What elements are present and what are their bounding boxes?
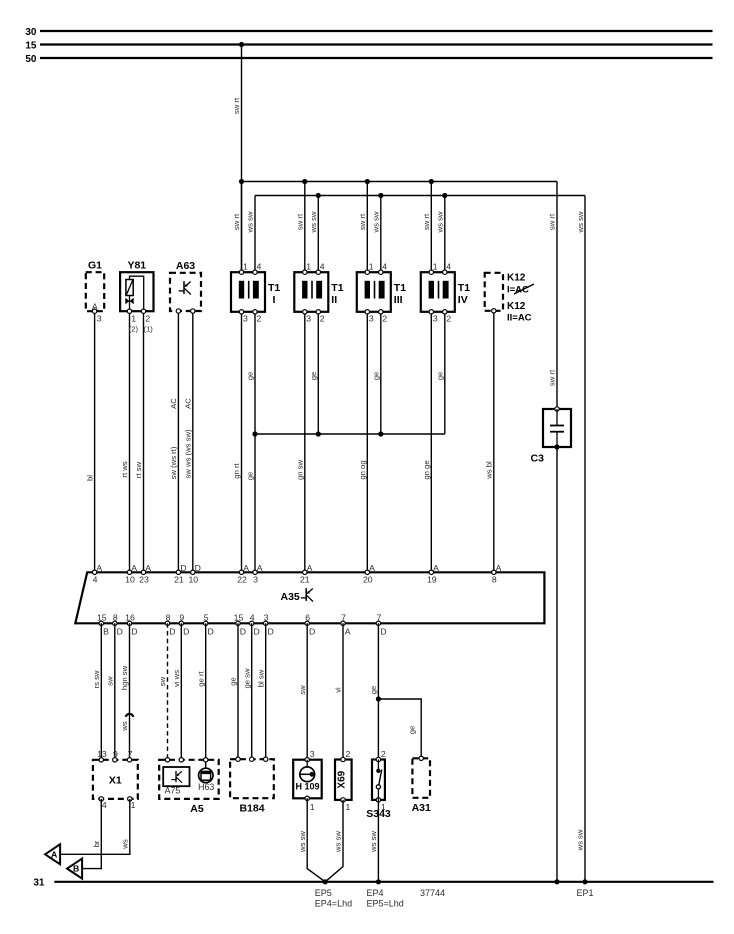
svg-text:15: 15 (97, 612, 107, 622)
svg-text:2: 2 (145, 314, 150, 324)
svg-text:21: 21 (300, 575, 310, 585)
svg-text:T1: T1 (394, 282, 406, 294)
svg-text:1: 1 (131, 314, 136, 324)
svg-text:ws: ws (120, 721, 129, 732)
svg-text:A35: A35 (281, 591, 300, 603)
svg-text:D: D (208, 627, 214, 637)
svg-text:2: 2 (257, 314, 262, 324)
svg-text:(1): (1) (144, 325, 154, 334)
svg-text:X1: X1 (109, 775, 122, 787)
svg-text:ge: ge (372, 372, 381, 381)
svg-text:A63: A63 (176, 260, 195, 272)
svg-text:I: I (273, 294, 276, 306)
svg-text:A: A (257, 563, 263, 573)
svg-text:9: 9 (179, 612, 184, 622)
svg-text:2: 2 (381, 749, 386, 759)
svg-text:D: D (183, 627, 189, 637)
svg-text:br: br (92, 840, 101, 847)
svg-text:ge: ge (229, 677, 238, 686)
svg-text:sw rt: sw rt (422, 213, 431, 230)
svg-text:A: A (131, 563, 137, 573)
svg-text:(2): (2) (129, 325, 139, 334)
svg-text:rs sw: rs sw (92, 670, 101, 688)
svg-text:EP5=Lhd: EP5=Lhd (367, 899, 404, 909)
svg-text:sw rt: sw rt (232, 97, 241, 114)
svg-text:ge: ge (246, 472, 255, 481)
svg-text:A: A (345, 627, 351, 637)
svg-text:vi: vi (334, 687, 343, 693)
svg-text:D: D (117, 627, 123, 637)
svg-text:1: 1 (131, 800, 136, 810)
svg-text:3: 3 (253, 575, 258, 585)
svg-text:IV: IV (458, 294, 468, 306)
svg-text:4: 4 (320, 262, 325, 272)
svg-text:K12: K12 (507, 273, 526, 284)
svg-text:D: D (180, 563, 186, 573)
svg-text:4: 4 (257, 262, 262, 272)
svg-text:sw (ws rt): sw (ws rt) (169, 446, 178, 479)
svg-text:ws sw: ws sw (298, 831, 307, 853)
svg-text:D: D (195, 563, 201, 573)
svg-text:EP4=Lhd: EP4=Lhd (315, 899, 352, 909)
svg-text:III: III (394, 294, 403, 306)
svg-text:8: 8 (113, 612, 118, 622)
svg-text:II=AC: II=AC (507, 313, 532, 324)
svg-text:II: II (331, 294, 337, 306)
svg-text:D: D (268, 627, 274, 637)
svg-text:T1: T1 (268, 282, 280, 294)
svg-text:31: 31 (33, 878, 45, 889)
svg-text:2: 2 (446, 314, 451, 324)
svg-text:A: A (496, 563, 502, 573)
svg-text:4: 4 (102, 800, 107, 810)
svg-text:6: 6 (305, 612, 310, 622)
svg-text:T1: T1 (331, 282, 343, 294)
svg-text:D: D (131, 627, 137, 637)
svg-text:T1: T1 (458, 282, 470, 294)
svg-text:AC: AC (169, 398, 178, 409)
svg-text:16: 16 (125, 612, 135, 622)
svg-text:A: A (307, 563, 313, 573)
svg-text:7: 7 (128, 749, 133, 759)
svg-text:A5: A5 (190, 803, 204, 815)
svg-text:sw: sw (298, 685, 307, 695)
svg-text:D: D (169, 627, 175, 637)
svg-text:ws sw: ws sw (334, 831, 343, 853)
svg-text:gn og: gn og (358, 460, 367, 479)
svg-text:15: 15 (234, 612, 244, 622)
svg-text:ge: ge (309, 372, 318, 381)
svg-text:ws sw: ws sw (436, 211, 445, 233)
svg-text:1: 1 (346, 802, 351, 812)
svg-text:4: 4 (382, 262, 387, 272)
svg-text:50: 50 (25, 54, 37, 65)
svg-text:5: 5 (204, 612, 209, 622)
svg-text:sw rt: sw rt (358, 213, 367, 230)
svg-text:gn rt: gn rt (232, 462, 241, 478)
svg-text:B: B (73, 864, 79, 874)
svg-text:A75: A75 (165, 786, 181, 796)
svg-text:D: D (254, 627, 260, 637)
svg-text:ws: ws (121, 839, 130, 850)
svg-text:37744: 37744 (420, 888, 445, 898)
svg-text:A31: A31 (412, 802, 431, 814)
svg-text:4: 4 (93, 575, 98, 585)
svg-text:3: 3 (369, 314, 374, 324)
svg-text:G1: G1 (88, 260, 102, 272)
svg-text:sw rt: sw rt (296, 213, 305, 230)
svg-text:H63: H63 (198, 782, 214, 792)
svg-text:rt ws: rt ws (120, 461, 129, 477)
svg-text:C3: C3 (531, 453, 545, 465)
svg-text:sw rt: sw rt (548, 369, 557, 386)
svg-text:1: 1 (369, 262, 374, 272)
svg-text:9: 9 (113, 749, 118, 759)
svg-text:sw rt: sw rt (548, 213, 557, 230)
svg-text:A: A (145, 563, 151, 573)
svg-text:ge rt: ge rt (196, 670, 205, 686)
svg-text:Y81: Y81 (127, 260, 146, 272)
svg-text:sw rt: sw rt (232, 213, 241, 230)
svg-text:sw: sw (106, 676, 115, 686)
svg-text:ge sw: ge sw (242, 668, 251, 689)
svg-text:3: 3 (243, 314, 248, 324)
svg-text:I=AC: I=AC (507, 285, 529, 296)
svg-text:4: 4 (250, 612, 255, 622)
svg-text:sw: sw (158, 676, 167, 686)
svg-text:1: 1 (306, 262, 311, 272)
svg-text:ge: ge (246, 372, 255, 381)
svg-text:20: 20 (363, 575, 373, 585)
svg-text:ws sw: ws sw (576, 211, 585, 233)
svg-text:sw ws (ws sw): sw ws (ws sw) (184, 429, 193, 479)
svg-text:7: 7 (341, 612, 346, 622)
svg-text:B184: B184 (239, 803, 264, 815)
svg-text:A: A (51, 849, 58, 859)
svg-text:ws sw: ws sw (372, 211, 381, 233)
svg-text:19: 19 (427, 575, 437, 585)
svg-text:EP4: EP4 (367, 888, 384, 898)
svg-text:ge: ge (369, 686, 378, 695)
svg-text:2: 2 (320, 314, 325, 324)
svg-text:gn sw: gn sw (296, 460, 305, 481)
svg-text:22: 22 (237, 575, 247, 585)
svg-text:rt sw: rt sw (134, 461, 143, 478)
svg-text:EP1: EP1 (577, 888, 594, 898)
svg-text:2: 2 (382, 314, 387, 324)
svg-text:1: 1 (310, 802, 315, 812)
svg-text:H 109: H 109 (295, 782, 319, 792)
svg-text:8: 8 (492, 575, 497, 585)
svg-text:ws sw: ws sw (369, 831, 378, 853)
svg-text:3: 3 (97, 314, 102, 324)
svg-text:1: 1 (243, 262, 248, 272)
svg-text:ge: ge (436, 372, 445, 381)
svg-text:D: D (380, 627, 386, 637)
svg-text:vi ws: vi ws (172, 670, 181, 687)
svg-text:EP5: EP5 (315, 888, 332, 898)
svg-text:hgn sw: hgn sw (120, 665, 129, 690)
svg-text:7: 7 (376, 612, 381, 622)
svg-text:2: 2 (346, 749, 351, 759)
svg-text:1: 1 (381, 802, 386, 812)
svg-text:X69: X69 (337, 770, 348, 788)
svg-text:A: A (369, 563, 375, 573)
svg-text:ge: ge (408, 726, 417, 735)
svg-text:3: 3 (264, 612, 269, 622)
svg-text:10: 10 (188, 575, 198, 585)
svg-text:A: A (96, 563, 102, 573)
svg-text:8: 8 (166, 612, 171, 622)
svg-text:bl sw: bl sw (256, 669, 265, 687)
svg-text:3: 3 (310, 749, 315, 759)
svg-text:10: 10 (125, 575, 135, 585)
svg-text:3: 3 (433, 314, 438, 324)
svg-text:B: B (103, 627, 109, 637)
svg-text:1: 1 (433, 262, 438, 272)
svg-text:15: 15 (25, 40, 37, 51)
svg-text:30: 30 (25, 27, 37, 38)
svg-text:3: 3 (306, 314, 311, 324)
svg-text:13: 13 (97, 749, 107, 759)
svg-text:ws sw: ws sw (309, 211, 318, 233)
svg-text:A: A (243, 563, 249, 573)
svg-text:ws bl: ws bl (485, 461, 494, 480)
svg-text:K12: K12 (507, 301, 526, 312)
svg-text:23: 23 (139, 575, 149, 585)
svg-text:bl: bl (85, 475, 94, 481)
svg-text:D: D (309, 627, 315, 637)
svg-text:A: A (433, 563, 439, 573)
svg-text:D: D (240, 627, 246, 637)
svg-text:ws sw: ws sw (246, 211, 255, 233)
svg-text:gn ge: gn ge (422, 460, 431, 479)
svg-text:4: 4 (446, 262, 451, 272)
svg-text:AC: AC (184, 398, 193, 409)
svg-text:ws sw: ws sw (576, 829, 585, 851)
svg-text:21: 21 (174, 575, 184, 585)
